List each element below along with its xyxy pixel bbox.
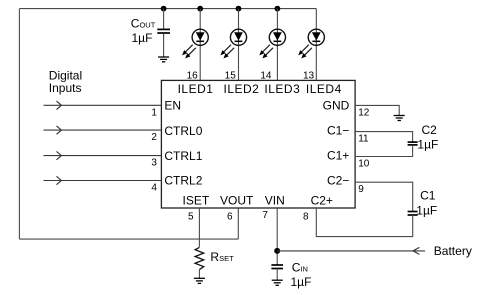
svg-text:C2+: C2+ xyxy=(311,193,333,207)
ground (COUT) xyxy=(158,57,169,62)
svg-text:4: 4 xyxy=(151,183,157,194)
wire: ISET pin 5 down xyxy=(198,208,200,247)
svg-text:ISET: ISET xyxy=(183,193,210,207)
svg-text:C1−: C1− xyxy=(327,123,349,137)
svg-text:1µF: 1µF xyxy=(416,203,437,217)
wire: C1 bottom to pin 8 xyxy=(316,208,412,237)
svg-text:C1+: C1+ xyxy=(327,149,349,163)
wire: CIN to ground xyxy=(276,269,278,281)
battery arrowhead xyxy=(413,247,419,254)
svg-text:1µF: 1µF xyxy=(291,275,312,289)
wire: LED4 column xyxy=(315,9,317,81)
svg-text:EN: EN xyxy=(164,98,181,112)
wire: battery line xyxy=(277,250,425,252)
wire: bottom loop horizontal xyxy=(19,238,238,240)
wire: pin 9 to C1 top xyxy=(355,182,413,211)
wire: input CTRL1 arrow xyxy=(44,151,162,159)
svg-text:8: 8 xyxy=(303,211,309,222)
svg-text:Battery: Battery xyxy=(434,244,472,258)
svg-text:CTRL0: CTRL0 xyxy=(164,124,202,138)
capacitor C1 xyxy=(408,212,418,216)
svg-text:CTRL1: CTRL1 xyxy=(164,149,202,163)
wire: COUT branch xyxy=(163,9,165,29)
svg-text:12: 12 xyxy=(358,107,370,118)
wire: input CTRL0 arrow xyxy=(44,126,162,134)
capacitor CIN xyxy=(271,265,283,269)
svg-text:13: 13 xyxy=(303,70,315,81)
svg-text:VIN: VIN xyxy=(265,193,285,207)
capacitor COUT xyxy=(157,29,170,33)
svg-text:C1: C1 xyxy=(420,189,436,203)
wire: left loop vertical xyxy=(18,9,20,240)
svg-text:5: 5 xyxy=(188,211,194,222)
svg-text:15: 15 xyxy=(225,70,237,81)
junction: LED1 node on rail xyxy=(197,6,203,12)
ground (pin 12) xyxy=(394,116,405,121)
svg-text:10: 10 xyxy=(358,159,370,170)
svg-text:1µF: 1µF xyxy=(417,138,438,152)
svg-text:2: 2 xyxy=(151,132,157,143)
svg-text:3: 3 xyxy=(151,158,157,169)
svg-text:ILED4: ILED4 xyxy=(306,82,342,96)
wire: VOUT pin 6 stub xyxy=(237,208,239,239)
LED D3 xyxy=(260,9,286,81)
junction: LED2 node on rail xyxy=(236,6,242,12)
wire: VIN pin 7 down xyxy=(276,208,278,265)
svg-text:ILED3: ILED3 xyxy=(264,82,300,96)
svg-text:Inputs: Inputs xyxy=(49,81,82,95)
svg-text:14: 14 xyxy=(260,70,272,81)
resistor RSET xyxy=(195,247,204,269)
ground (RSET) xyxy=(194,278,205,283)
svg-text:6: 6 xyxy=(227,211,233,222)
svg-text:VOUT: VOUT xyxy=(220,193,254,207)
svg-text:C2−: C2− xyxy=(327,174,349,188)
wire: input EN arrow xyxy=(44,101,162,109)
wire: C2 bottom to pin 10 xyxy=(355,145,413,157)
wire: LED1 column xyxy=(199,9,201,81)
wire: LED2 column xyxy=(238,9,240,81)
svg-text:ILED2: ILED2 xyxy=(224,82,260,96)
svg-text:ILED1: ILED1 xyxy=(178,82,214,96)
wire: pin 12 to ground xyxy=(355,105,399,115)
svg-text:11: 11 xyxy=(358,134,369,145)
svg-text:1µF: 1µF xyxy=(132,31,153,45)
capacitor C2 xyxy=(408,142,418,145)
LED D2 xyxy=(221,9,247,81)
svg-text:7: 7 xyxy=(262,210,268,221)
op-amp U1 : LED driver IC body xyxy=(161,80,355,208)
svg-text:1: 1 xyxy=(151,107,157,118)
wire: pin 11 to C2 top xyxy=(355,132,413,143)
svg-text:16: 16 xyxy=(187,70,199,81)
wire: LED3 column xyxy=(276,9,278,81)
svg-text:GND: GND xyxy=(323,98,350,112)
wire: input CTRL2 arrow xyxy=(44,176,162,184)
LED D4 xyxy=(299,9,325,81)
svg-text:C2: C2 xyxy=(422,123,438,137)
wire: VOUT top rail xyxy=(19,8,316,10)
ground (CIN) xyxy=(272,280,283,285)
LED D1 xyxy=(183,9,209,81)
wire: RSET to ground xyxy=(198,270,200,279)
junction: VIN battery node xyxy=(274,248,280,254)
wire: COUT to ground xyxy=(163,33,165,57)
junction: COUT node on rail xyxy=(161,6,167,12)
svg-text:CTRL2: CTRL2 xyxy=(164,174,202,188)
junction: LED3 node on rail xyxy=(275,6,281,12)
svg-text:9: 9 xyxy=(358,184,364,195)
